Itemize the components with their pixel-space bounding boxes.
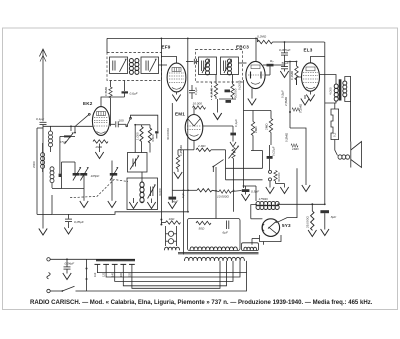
rectifier box (50 Ohm / 6uF) [188,219,241,251]
transformer taps [93,264,135,277]
wire (tap feed) [96,259,135,262]
svg-text:6µF: 6µF [223,231,230,235]
capacitor 0.5uF [241,186,260,201]
label EBC3 [236,45,249,50]
svg-text:1MΩ: 1MΩ [292,147,299,151]
svg-text:25.000Ω: 25.000Ω [305,216,309,228]
wire (gang frame box) [52,162,84,189]
IF2 primary box [199,57,217,75]
mains terminal 2 [47,289,50,292]
tube EK2 [92,107,109,136]
svg-text:3.500: 3.500 [151,134,155,142]
svg-text:EBC3: EBC3 [236,45,249,50]
capacitor 0.04uF (mains) [63,259,76,279]
svg-text:RADIO CARISCH. — Mod. « Calabr: RADIO CARISCH. — Mod. « Calabria, Elna, … [30,300,373,306]
wire (antenna to EK2 grid bus) [43,125,93,127]
ground (osc coil) [129,198,137,209]
IF1 secondary box [141,57,159,74]
padder trimmer box [128,153,148,173]
svg-text:2,5MΩ: 2,5MΩ [284,96,288,106]
svg-text:0,5MΩ: 0,5MΩ [284,132,288,142]
label 6uF (bias cap) [181,192,185,198]
label EL3 [304,48,313,53]
svg-text:100: 100 [119,118,124,122]
svg-text:4.000: 4.000 [329,87,333,95]
resistor 0.2MOhm (AVC divider) [209,75,217,100]
svg-text:0,04µF: 0,04µF [65,261,76,265]
resistor 1MOhm (small bias) [291,144,299,151]
svg-text:30.000Ω: 30.000Ω [166,128,170,140]
wire (5Y3 anode left) [251,205,263,219]
svg-text:5Y3: 5Y3 [282,223,291,228]
antenna coil L2 (2000) [32,143,44,169]
svg-text:0,0005: 0,0005 [238,80,242,90]
wire (tap link 1) [97,261,246,273]
potentiometer 0.5MOhm (volume) [229,146,239,212]
svg-text:0,005µF: 0,005µF [279,48,292,52]
svg-text:0,2MΩ: 0,2MΩ [209,87,213,97]
capacitor 50uF + ground [274,61,290,78]
capacitor 4uF [168,190,188,208]
resistor 0.25MOhm + ground (EM1 target) [174,144,194,178]
label 105pF [91,174,101,178]
capacitor 0.5uF + resistors (back bias row) [188,189,242,199]
svg-text:2000: 2000 [32,161,36,168]
resistor 10.000 (EF9 screen) [193,102,206,110]
capacitor 27pF trimmer [59,133,76,145]
svg-text:2 MΩ: 2 MΩ [197,144,206,148]
power transformer core [178,252,259,253]
resistor 0.1MOhm (bias) [292,103,302,113]
svg-text:50.000: 50.000 [234,88,238,98]
resistor 10 Ohm [160,217,180,226]
svg-text:1.000: 1.000 [135,132,139,140]
svg-text:EF9: EF9 [162,45,171,50]
label EF9 [162,45,171,50]
filament winding (lamps) [165,247,180,250]
oscillator coil box [127,172,162,210]
tube 5Y3 [262,219,280,237]
svg-text:0,2MΩ: 0,2MΩ [257,35,267,39]
wire (bottom bus) [52,195,188,214]
svg-text:0,5MΩ: 0,5MΩ [104,86,108,96]
ground (EK2 grid) [95,152,103,159]
svg-text:30.000: 30.000 [277,172,281,182]
variable capacitor (oscillator tuning t3) [110,161,118,201]
choke 1750 Ohm [256,197,325,210]
svg-text:2MΩ: 2MΩ [95,145,103,149]
resistor 2 MOhm (EM1 grid) [194,140,226,151]
wire (trimmer to gang bus) [59,136,61,173]
node (junction dots antenna circuit) [70,125,76,133]
antenna coil L1 [43,126,53,172]
switch (tone contacts) [269,170,282,182]
resistor 2MOhm (diode load b) [244,111,273,146]
variable capacitor (RF tuning t1) [73,162,81,181]
tube EL3 [302,63,320,91]
svg-text:50Ω: 50Ω [199,227,205,231]
ground (tone b) [276,181,289,194]
svg-text:EK2: EK2 [83,101,93,106]
switch (tone arm) [212,160,223,172]
wire (bus corner into IF1) [106,38,108,52]
svg-text:2MΩ: 2MΩ [254,126,258,133]
label EK2 [83,101,93,106]
svg-text:8µF: 8µF [331,215,338,219]
ground (bias net) [302,185,310,192]
ground (divider common) [213,99,221,120]
antenna [39,49,46,121]
wire (top HT bus) [107,37,258,39]
ground (t3) [108,201,116,208]
wire (5Y3 anode right diagonal) [277,168,297,222]
IF2 secondary box [221,57,239,75]
caption text [30,300,373,306]
svg-text:0,1µF: 0,1µF [194,87,198,95]
svg-text:0,1µF: 0,1µF [36,117,45,121]
svg-text:0,6µF: 0,6µF [130,92,139,96]
wire (screen vertical long) [187,38,189,211]
ground (tone a) [266,181,274,194]
wire (dashed gang linkage) [70,180,128,198]
wire (osc junction drop) [134,124,150,153]
wire (left chassis vertical) [37,128,52,214]
svg-text:1750Ω: 1750Ω [259,197,269,201]
wire (long vertical chassis left) [160,38,162,224]
label 0.0005 [238,80,242,90]
capacitor (screen bypass black) [219,90,236,103]
switch (band arm 2) [119,115,159,138]
wire (bias network box) [284,128,306,185]
coil L3 [50,167,54,188]
label EM1 [175,112,185,117]
wire (vertical to box) [215,167,217,219]
wire (tone bus) [226,150,263,180]
label 5Y3 [282,223,291,228]
svg-text:0,02µF: 0,02µF [271,146,275,156]
tube EM1 [185,115,203,141]
svg-text:0,5µF: 0,5µF [251,190,260,194]
primary winding [185,257,245,261]
capacitor (coupling black) [263,64,274,75]
capacitor (EK2 osc grid) [110,121,126,127]
resistor 0.5MOhm (AVC) [104,81,112,127]
ground (EF9 cathode) [172,95,180,102]
svg-text:10.000Ω: 10.000Ω [217,195,229,199]
wire (IF1 to EF9 grid) [159,64,168,66]
capacitor 0.02uF (tone) [267,145,276,170]
ground (antenna earth arrow) [39,229,47,236]
resistor 0.2MOhm (feedback) [257,35,325,44]
resistor 2MOhm (diode load a) [251,111,257,151]
wire (EBC3 anode up to bus) [255,38,257,61]
resistor 1.000 (osc padder R) [135,125,143,153]
svg-text:0,5µF: 0,5µF [281,90,285,98]
ground (EL3 cathode) [306,91,314,101]
svg-text:EL3: EL3 [304,48,313,53]
wire (EL3 right drop) [324,42,326,204]
capacitor (padding small bar) [59,174,62,177]
wire (trimmer drops) [71,126,75,132]
svg-text:0,25MΩ: 0,25MΩ [179,144,183,156]
wire (AVC dashed drop) [211,82,213,100]
wire (tap link 2) [106,261,240,277]
svg-text:110: 110 [93,272,97,277]
wire (EF9 top feed) [161,57,176,64]
svg-text:0,1µF: 0,1µF [234,119,238,127]
resistor 0.1MOhm (EBC3 load) [285,62,299,86]
ground (t2) [80,201,88,208]
variable capacitor (RF tuning t2) [80,167,88,201]
wire (tap link 4) [123,261,226,286]
capacitor (EF9 anode coupling) [186,59,199,65]
svg-text:2MΩ: 2MΩ [264,123,268,130]
resistor 2MOhm (EK2 grid leak) [93,140,108,152]
IF1 windings [129,59,139,75]
resistor 50.000 [231,75,238,100]
capacitor (EF9 cathode) [177,85,198,99]
capacitor 0.6uF [122,81,139,98]
capacitor 0.005uF [279,41,292,61]
wire (EBC3-EL3 bias rail) [284,62,291,129]
wire (EL3 top) [311,57,325,63]
resistor 3.500 [148,125,155,153]
capacitor 0.05uF (chassis) [64,214,85,234]
svg-text:Rₚ: Rₚ [270,59,274,63]
capacitor (AF coupling black) [230,119,238,147]
wire (EL3 grid left) [297,77,302,85]
svg-text:0,05µF: 0,05µF [74,220,85,224]
node (misc junction dots) [66,61,326,261]
wire (EK2 anode up) [101,97,125,107]
resistor 25.000 (bleeder) [305,203,316,236]
label Rp [270,59,274,63]
wire (EF9 cathode drop) [166,103,172,190]
wire (EM1 grid feed) [194,108,233,127]
svg-text:6µF: 6µF [181,192,185,198]
svg-text:105pF: 105pF [91,174,101,178]
label 0,5uF (Rp net) [281,90,285,98]
fuse [47,273,50,279]
wire (mains top) [50,258,135,260]
wire (IF2 to EBC3) [239,62,247,64]
5Y3 filament winding box [242,243,259,251]
wire (mains bottom bus) [87,273,247,291]
ground (bias arrow) [301,95,309,105]
svg-text:0,1MΩ: 0,1MΩ [298,103,302,113]
svg-text:EM1: EM1 [175,112,185,117]
wire (mains vertical link) [86,259,88,291]
tube EF9 [167,63,186,92]
wire (tap link 3) [115,261,233,282]
speaker [351,142,362,168]
5Y3 socket box [252,235,281,245]
HT secondary winding [190,247,237,250]
switch (mains) [50,286,86,292]
speaker voice coil [338,96,351,159]
IF1 primary box [110,57,128,74]
field coil 0.2 (stepped) [331,103,339,156]
IF transformer 1 (dashed can) [107,53,162,81]
wire (long vertical heater) [183,150,185,255]
IF transformer 2 (dashed can) [196,50,243,83]
dial lamps [166,226,177,246]
switch (wave change arm) [76,113,91,126]
ground (EBC3 cathode) [248,88,256,105]
svg-text:0,2: 0,2 [332,132,336,137]
wire (AVC drop from EBC3) [243,80,245,188]
mains terminal 1 [47,258,50,261]
wire (tap link 5) [132,261,220,288]
capacitor 0.1uF (antenna series) [36,117,47,229]
output transformer [320,75,351,104]
capacitor 8uF [320,210,337,235]
tube EBC3 [246,61,265,88]
ground (osc trimmer) [147,199,155,209]
svg-text:10.000: 10.000 [193,102,203,106]
